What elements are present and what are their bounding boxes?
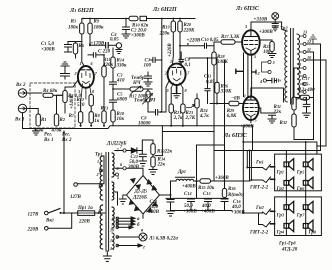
tube L3 pin wires down to L4	[244, 53, 252, 97]
test jack after C4 with ground	[116, 43, 122, 54]
resistor R3 180k	[68, 19, 84, 42]
ground tap	[310, 35, 317, 44]
capacitor C9 0.1	[179, 52, 191, 68]
svg-text:+220В: +220В	[168, 43, 173, 57]
resistor R28 330k	[212, 46, 229, 65]
wire bundle to speakers left	[242, 142, 262, 225]
ground Tr1 bottom	[103, 251, 111, 262]
svg-text:1: 1	[170, 59, 172, 64]
choke Dr1	[171, 169, 201, 195]
svg-text:4,7к: 4,7к	[199, 114, 209, 119]
transformer Tr1	[95, 148, 120, 252]
svg-text:40,0: 40,0	[201, 204, 211, 209]
input jack Bx2	[15, 83, 34, 97]
speaker Gr8	[303, 220, 317, 235]
svg-text:ГИТ-2-2: ГИТ-2-2	[249, 186, 269, 191]
svg-text:4ГД-28: 4ГД-28	[281, 248, 298, 253]
svg-text:5: 5	[117, 175, 119, 180]
resistor R10 62k horizontal	[120, 16, 152, 28]
cathode resistor R21	[169, 88, 183, 127]
svg-text:+400В: +400В	[182, 185, 196, 190]
resistor R4	[43, 88, 62, 97]
capacitor C10 0.05	[180, 37, 221, 48]
junction dots right	[305, 141, 307, 143]
capacitor C4	[106, 32, 120, 48]
svg-text:Вх 1: Вх 1	[43, 138, 54, 143]
speaker box 1	[275, 154, 322, 191]
svg-text:Л3 6П3С: Л3 6П3С	[235, 5, 260, 12]
svg-text:+360В: +360В	[215, 176, 229, 181]
resistor R14 330k	[111, 48, 127, 74]
wire tap12 right vertical	[320, 44, 322, 151]
ground bridge left	[119, 195, 126, 204]
svg-text:2,7К: 2,7К	[185, 116, 196, 121]
feedback resistor R37 horizontal	[296, 95, 313, 99]
svg-text:3: 3	[272, 60, 275, 65]
Tr2 taps	[299, 30, 312, 101]
tube L3 6P3S	[242, 24, 260, 59]
wire secondary to bridge	[115, 168, 143, 175]
svg-text:1: 1	[97, 159, 99, 164]
wire R9 to C4	[90, 44, 106, 46]
cathode trimmer R24	[187, 94, 210, 126]
resistor R2 470k	[51, 103, 65, 134]
speaker internal wiring box2	[286, 197, 305, 236]
test jack on plus310	[272, 13, 279, 22]
svg-text:330К: 330К	[216, 60, 229, 65]
cathode resistor R8 lower	[89, 106, 101, 127]
resistor R11 420k	[102, 55, 114, 111]
svg-text:3: 3	[97, 184, 100, 189]
svg-text:Л1 6Н2П: Л1 6Н2П	[69, 7, 94, 14]
speaker Gr6	[296, 177, 313, 192]
cathode network L4	[259, 108, 276, 123]
socket Gn1	[255, 160, 275, 183]
svg-text:220К: 220К	[183, 29, 196, 34]
svg-text:0,05: 0,05	[110, 38, 119, 43]
grid resistor R29 to L4	[210, 97, 243, 120]
capacitor C2 electrolytic with ground	[122, 19, 147, 39]
wire bias line up to amp	[161, 126, 163, 156]
svg-text:220В: 220В	[78, 220, 91, 225]
tap circles right of L3	[262, 60, 275, 74]
wire jack2 to network	[34, 92, 42, 94]
wire bias to amp	[155, 155, 162, 157]
mains terminal 220V	[27, 213, 72, 233]
wire tone to grid L2	[161, 19, 170, 113]
resistor R22 100	[263, 42, 276, 58]
svg-text:С1 5,0: С1 5,0	[41, 41, 54, 47]
wire secondary 5 to bridge bottom	[115, 192, 118, 205]
svg-text:R27 3,3К: R27 3,3К	[221, 34, 240, 40]
resistor R13	[101, 106, 109, 127]
ground bus amp	[32, 126, 253, 129]
ground bus PSU	[171, 210, 233, 212]
grid wire L1 from input	[57, 80, 79, 104]
input jack Bx1	[14, 104, 34, 128]
svg-text:+300В: +300В	[259, 30, 273, 35]
wire cap top line	[166, 181, 228, 198]
ground input bus	[33, 129, 40, 136]
speaker Gr4	[276, 220, 294, 235]
svg-text:Д1Д226Б: Д1Д226Б	[106, 141, 127, 147]
capacitor C7 100	[144, 57, 162, 68]
Tr2 core	[291, 29, 294, 105]
svg-text:3: 3	[77, 89, 80, 94]
svg-text:Л2 6Н2П: Л2 6Н2П	[152, 6, 177, 13]
capacitor C11 0.05	[204, 58, 215, 104]
plate wire L4 to transformer	[251, 88, 284, 102]
svg-text:+310В: +310В	[254, 18, 268, 23]
capacitor C16	[221, 199, 245, 216]
resistor R20 220k	[178, 19, 195, 47]
wire R28 feed down	[213, 65, 215, 181]
svg-text:0,5-: 0,5-	[302, 83, 310, 88]
feedback resistor R31	[272, 68, 300, 115]
resistor R19 220k	[159, 19, 176, 65]
capacitor and ground above input box	[61, 62, 70, 79]
socket Gn2	[255, 205, 275, 227]
capacitor C1 electrolytic	[41, 41, 72, 53]
wire tap11 to right vertical	[306, 52, 313, 140]
lamp L5	[116, 233, 178, 242]
Tr2 primary winding	[285, 31, 287, 102]
svg-text:22к: 22к	[272, 110, 281, 115]
svg-text:Л4 6П3С: Л4 6П3С	[223, 132, 248, 139]
capacitor C3 410	[110, 73, 126, 93]
svg-text:2: 2	[96, 172, 99, 177]
Tr1 primary upper	[100, 156, 102, 200]
svg-text:127В: 127В	[70, 195, 82, 200]
svg-text:Вх 2: Вх 2	[15, 83, 26, 88]
plate wire L3 to plus310	[250, 22, 252, 30]
svg-text:5: 5	[254, 54, 256, 59]
Tr1 primary lower	[100, 205, 102, 249]
fuse Pr1	[77, 205, 105, 225]
grid stopper stub left	[236, 69, 243, 73]
svg-text:Рег.: Рег.	[62, 133, 70, 138]
svg-text:410: 410	[116, 79, 125, 84]
pot Tembr VCh	[134, 89, 156, 112]
wire bridge bottom to filament line	[142, 214, 144, 219]
svg-text:300В: 300В	[127, 165, 140, 170]
speaker Gr7	[296, 201, 313, 218]
bridge diode arrows	[147, 180, 157, 191]
svg-text:180к: 180к	[68, 26, 79, 31]
bridge rectifier D2-D5	[127, 176, 160, 215]
wire rail up from PSU	[249, 151, 251, 182]
svg-text:+220В: +220В	[187, 39, 201, 44]
svg-text:4: 4	[97, 208, 100, 213]
resistor R33 22k	[142, 140, 172, 157]
speaker Gr2	[276, 177, 294, 192]
svg-text:1к: 1к	[94, 119, 100, 124]
svg-text:3: 3	[166, 88, 169, 93]
resistor R35 10k horizontal	[198, 179, 250, 191]
wire speaker line y142	[243, 126, 317, 154]
resistor R27 3.3k horizontal	[221, 34, 242, 44]
wire bottom right horizontal y139.5	[294, 139, 314, 141]
wire distribution y145	[197, 60, 225, 189]
junction dots misc	[170, 194, 172, 196]
svg-text:50,0: 50,0	[184, 204, 193, 209]
Tr1 secondary filament	[112, 207, 114, 228]
cap to ground mid	[144, 72, 152, 86]
cathode resistor R7	[69, 95, 83, 127]
svg-text:100: 100	[144, 64, 152, 69]
transformer Tr2	[280, 26, 300, 105]
wire speaker line y150.5	[215, 150, 321, 152]
resistor R34	[149, 157, 166, 175]
svg-text:2: 2	[257, 71, 260, 76]
svg-text:11: 11	[307, 47, 311, 52]
filament wires with arrows	[110, 217, 144, 234]
wire tap12 right	[306, 43, 320, 45]
speaker Gr5	[296, 159, 313, 176]
resistor R36	[222, 186, 244, 199]
plate wire L2 right	[179, 46, 181, 64]
cathode T ground L2	[171, 83, 183, 98]
Tr1 secondary mid	[112, 182, 114, 200]
cap to ground below plus310	[272, 22, 278, 31]
svg-text:−0В: −0В	[231, 97, 241, 102]
wire tap10 to right vertical	[306, 60, 326, 146]
svg-text:2,7к: 2,7к	[173, 116, 183, 121]
capacitor C8 10000	[138, 110, 161, 127]
Tr1 secondary bottom	[112, 233, 114, 249]
wire plus310 line	[251, 22, 287, 31]
resistor R26 330k	[215, 58, 232, 105]
svg-text:10к: 10к	[117, 117, 125, 122]
svg-text:3: 3	[244, 24, 247, 29]
svg-text:22к: 22к	[157, 163, 166, 168]
arrow g	[116, 244, 145, 251]
svg-text:+300В: +300В	[231, 211, 245, 216]
tube L2 6N2P	[164, 59, 190, 93]
speaker Gr3	[276, 201, 294, 218]
tube L1 6N2P	[74, 61, 98, 99]
capacitor C14	[183, 191, 197, 215]
resistor R9 180k	[88, 19, 104, 46]
stub right pin2	[252, 70, 256, 74]
capacitor C15	[201, 191, 215, 215]
svg-text:6800: 6800	[117, 98, 128, 103]
svg-text:ГИТ-2-2: ГИТ-2-2	[249, 231, 269, 236]
svg-text:6,8К: 6,8К	[227, 114, 237, 119]
cathode resistor R12 upper	[76, 95, 93, 109]
Tr1 secondary HV	[112, 153, 114, 177]
svg-text:220к: 220к	[159, 32, 171, 37]
svg-text:40,0: 40,0	[231, 205, 241, 210]
feedback resistor R32	[279, 110, 296, 140]
svg-text:R(подг): R(подг)	[228, 193, 245, 198]
svg-text:Вх 1: Вх 1	[14, 118, 25, 123]
capacitor C3a low	[88, 50, 111, 58]
svg-text:14: 14	[110, 246, 114, 251]
svg-text:5: 5	[255, 118, 257, 123]
svg-text:330К: 330К	[220, 90, 233, 95]
pot Tembr NCh	[113, 76, 152, 100]
svg-text:Вх 2: Вх 2	[61, 138, 72, 143]
svg-text:×300В: ×300В	[41, 48, 55, 53]
svg-text:+300В: +300В	[145, 210, 159, 215]
svg-text:2: 2	[74, 71, 77, 76]
wire bridge plus to C13	[160, 195, 171, 200]
svg-text:С 220: С 220	[98, 50, 111, 55]
tube L4 6P3S	[243, 94, 259, 123]
svg-text:2: 2	[164, 71, 167, 76]
capacitor C17 label	[298, 76, 315, 93]
resistor R18 10k	[111, 110, 125, 126]
wire distribution y131.5	[162, 131, 214, 133]
speaker box 2	[275, 197, 322, 236]
svg-text:Рег.: Рег.	[44, 133, 52, 138]
svg-text:180к: 180к	[94, 26, 105, 31]
svg-text:330к: 330к	[116, 64, 128, 69]
screen wire L3	[260, 40, 273, 42]
wire ground return to speakers	[252, 126, 254, 151]
mains terminal 127V with switch Vk1	[28, 209, 78, 224]
svg-text:г: г	[143, 246, 145, 251]
speaker column risers	[286, 142, 305, 197]
tap terminal 127V	[70, 156, 104, 200]
capacitor C5 6800	[110, 92, 128, 111]
svg-text:127В: 127В	[28, 213, 40, 218]
wire L2 plate to C11	[189, 57, 217, 59]
speaker Gr1	[276, 159, 294, 176]
cap to ground pin4	[259, 78, 280, 84]
svg-text:10000: 10000	[138, 122, 151, 127]
diode D1	[106, 141, 142, 154]
wire plate L1	[82, 42, 85, 67]
svg-text:3: 3	[243, 94, 246, 99]
wire input ground down to mains	[63, 131, 65, 213]
svg-text:12: 12	[110, 238, 114, 243]
resistor R6	[68, 42, 85, 59]
svg-text:1: 1	[80, 61, 82, 66]
resistor R1 470k	[33, 109, 47, 134]
svg-text:12: 12	[307, 39, 311, 44]
resistor R5	[63, 87, 82, 113]
feedback capacitor	[303, 98, 311, 118]
svg-text:4: 4	[259, 79, 262, 84]
wire top supply bus	[83, 18, 195, 20]
svg-text:+140В: +140В	[70, 95, 75, 109]
svg-text:0,1: 0,1	[185, 63, 191, 68]
svg-text:R3322к: R3322к	[157, 149, 173, 155]
Tr2 secondary winding	[297, 34, 300, 99]
svg-text:470к: 470к	[51, 129, 63, 134]
svg-text:510: 510	[77, 103, 85, 108]
cathode resistor R23	[181, 88, 196, 127]
speaker internal wiring box1	[286, 154, 305, 191]
capacitor C13 electrolytic	[145, 199, 174, 216]
svg-text:13: 13	[303, 30, 307, 35]
svg-text:0,2+400: 0,2+400	[298, 88, 315, 93]
Tr1 core	[106, 153, 109, 252]
svg-text:Д226Б: Д226Б	[132, 196, 148, 201]
svg-text:220В: 220В	[27, 228, 40, 233]
dashed box input attenuator	[30, 83, 75, 128]
svg-text:×300В: ×300В	[131, 34, 145, 39]
svg-text:НЧ: НЧ	[132, 81, 141, 86]
capacitor C12 electrolytic	[127, 151, 146, 171]
